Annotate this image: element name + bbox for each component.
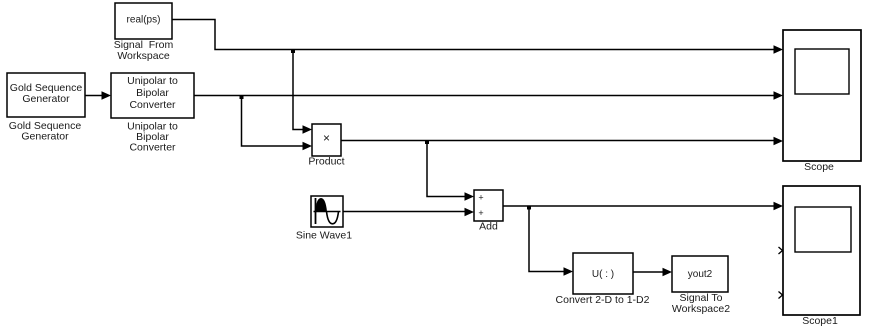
wire: branch junction -> Add in1 bbox=[427, 141, 474, 201]
node: junction on wire1 at x=293 bbox=[291, 49, 295, 53]
node: junction on wire2 at x=241.5 bbox=[240, 95, 244, 99]
svg-text:Product: Product bbox=[308, 156, 344, 168]
block U3 Unipolar to Bipolar Converter bbox=[111, 73, 194, 118]
wire: Add -> Scope1 in1 bbox=[503, 202, 783, 211]
block U2 Signal From Workspace (real(ps)) bbox=[115, 3, 172, 39]
svg-text:Convert 2-D to 1-D2: Convert 2-D to 1-D2 bbox=[556, 294, 650, 306]
svg-text:Scope1: Scope1 bbox=[802, 315, 838, 327]
block U1 Gold Sequence Generator bbox=[7, 73, 85, 117]
wire: real(ps) -> corner -> Scope in1 bbox=[172, 20, 783, 54]
svg-text:×: × bbox=[323, 131, 330, 145]
block U6 Add bbox=[474, 190, 503, 221]
svg-text:Converter: Converter bbox=[129, 142, 176, 154]
svg-text:+: + bbox=[478, 208, 483, 218]
svg-text:yout2: yout2 bbox=[688, 269, 713, 280]
block U10 Scope1 bbox=[783, 186, 860, 315]
label: Signal From Workspace bbox=[114, 39, 174, 62]
block U5 Sine Wave1 bbox=[311, 196, 343, 227]
svg-text:Workspace2: Workspace2 bbox=[672, 303, 730, 315]
svg-text:real(ps): real(ps) bbox=[127, 15, 161, 26]
svg-text:Scope: Scope bbox=[804, 161, 834, 173]
svg-text:Workspace: Workspace bbox=[117, 50, 169, 62]
svg-text:Generator: Generator bbox=[22, 93, 70, 105]
wire: Product -> Scope in3 bbox=[341, 137, 783, 146]
svg-text:Add: Add bbox=[479, 221, 498, 233]
svg-text:+: + bbox=[478, 193, 483, 203]
node: Scope1 unconnected port 3 chevron bbox=[779, 292, 783, 299]
node: Scope1 unconnected port 2 chevron bbox=[779, 247, 783, 254]
svg-text:Bipolar: Bipolar bbox=[136, 87, 169, 99]
svg-text:Converter: Converter bbox=[129, 99, 176, 111]
wire: Unipolar converter -> Scope in2 bbox=[194, 91, 783, 100]
wire: Sine Wave1 -> Add in2 bbox=[343, 208, 474, 217]
block U4 Product bbox=[312, 124, 341, 156]
svg-text:U( : ): U( : ) bbox=[592, 269, 614, 280]
wire: branch junction -> U(:) input bbox=[529, 206, 573, 276]
svg-text:Sine Wave1: Sine Wave1 bbox=[296, 230, 352, 242]
block U8 Signal To Workspace2 (yout2) bbox=[672, 256, 728, 292]
wire: U(:) -> yout2 bbox=[633, 268, 672, 277]
wire: Gold Sequence Generator -> Unipolar converter bbox=[85, 91, 111, 100]
svg-text:Generator: Generator bbox=[21, 131, 69, 143]
label: Unipolar to Bipolar Converter bbox=[127, 121, 178, 154]
wire: branch junction -> Product in2 bbox=[242, 96, 313, 151]
label: Gold Sequence Generator bbox=[9, 120, 82, 143]
node: junction on product output at x=427 bbox=[425, 140, 429, 144]
label: Signal To Workspace2 bbox=[672, 292, 730, 315]
wire: branch junction -> Product in1 bbox=[293, 50, 312, 134]
block U7 Convert 2-D to 1-D2 (U(:)) bbox=[573, 253, 633, 294]
block U9 Scope bbox=[783, 30, 861, 161]
svg-text:Unipolar to: Unipolar to bbox=[127, 75, 178, 87]
node: junction on add output at x=529 bbox=[527, 206, 531, 210]
